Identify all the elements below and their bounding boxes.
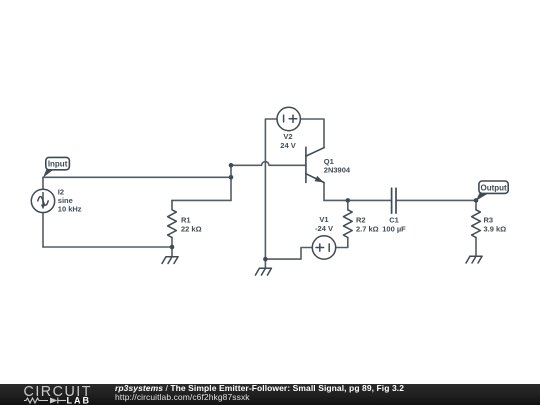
wire base net with hop over V- rail: [231, 162, 306, 166]
wire R2 top lead: [347, 200, 349, 209]
footer bar: [0, 384, 540, 405]
label I2 sine 10 kHz: [58, 187, 82, 213]
svg-text:V1: V1: [319, 215, 328, 224]
svg-text:100 µF: 100 µF: [382, 224, 406, 233]
wire V2 right lead to collector: [300, 119, 324, 148]
svg-text:-24 V: -24 V: [315, 224, 333, 233]
junction dot output node: [474, 198, 479, 203]
wire R1 bottom lead: [171, 238, 173, 248]
wire V2 left lead: [265, 119, 277, 259]
label R2 2.7 kOhm: [356, 215, 379, 233]
ground GND3 under R3: [466, 256, 482, 263]
svg-text:R2: R2: [356, 215, 366, 224]
svg-text:LAB: LAB: [67, 395, 92, 405]
svg-text:2N3904: 2N3904: [324, 166, 351, 175]
source V1 battery: [312, 236, 335, 259]
wire vertical junction riser x=231: [230, 165, 232, 200]
label C1 100 uF: [382, 215, 406, 233]
svg-text:C1: C1: [389, 215, 399, 224]
resistor R2: [343, 210, 352, 238]
svg-text:10 kHz: 10 kHz: [58, 205, 82, 214]
junction dot input tee: [229, 175, 234, 180]
wire R1 ground stem: [171, 247, 173, 257]
node Input flag: [43, 157, 69, 177]
svg-text:Input: Input: [48, 160, 68, 169]
wire R3 top lead: [475, 200, 477, 209]
wire I2 bottom lead: [42, 213, 44, 247]
wire bottom I2 to R1: [43, 246, 172, 248]
wire emitter node to C1: [324, 199, 391, 201]
label V2 24 V: [280, 132, 295, 150]
ground GND1 under R1: [162, 257, 178, 264]
wire V1 left lead to ground rail: [265, 248, 312, 260]
capacitor C1: [392, 188, 396, 213]
svg-text:24 V: 24 V: [280, 141, 295, 150]
junction dot R1 bottom: [170, 245, 175, 250]
junction dot ground rail: [263, 257, 268, 262]
svg-text:Output: Output: [480, 184, 507, 193]
wire R2 bottom lead to V1: [336, 238, 348, 248]
label V1 -24 V: [315, 215, 333, 233]
svg-text:I2: I2: [58, 187, 64, 196]
wire I2 top lead: [42, 177, 44, 189]
svg-text:3.9 kΩ: 3.9 kΩ: [484, 224, 507, 233]
svg-text:sine: sine: [58, 196, 73, 205]
wire R1 top to junction riser: [172, 199, 231, 201]
wire emitter to node: [323, 183, 325, 201]
CircuitLab logo: [0, 384, 110, 405]
svg-text:2.7 kΩ: 2.7 kΩ: [356, 224, 379, 233]
svg-text:R1: R1: [181, 215, 191, 224]
resistor R1: [168, 200, 177, 237]
source V2 battery: [277, 107, 300, 130]
junction dot R2 top: [346, 198, 351, 203]
svg-text:R3: R3: [484, 215, 494, 224]
wire middle ground stem: [264, 259, 266, 268]
label R3 3.9 kOhm: [484, 215, 507, 233]
label R1 22 kOhm: [181, 215, 202, 233]
svg-text:22 kΩ: 22 kΩ: [181, 224, 202, 233]
junction dot base riser top: [229, 163, 234, 168]
footer text: [115, 384, 404, 402]
wire input node to junction: [43, 176, 231, 178]
label Q1 2N3904: [324, 157, 351, 174]
transistor Q1 NPN: [306, 147, 324, 182]
source I2 sine current source: [31, 189, 54, 212]
svg-text:V2: V2: [283, 132, 292, 141]
node Output flag: [476, 181, 508, 201]
resistor R3: [472, 210, 481, 238]
wire C1 to output node: [397, 199, 476, 201]
ground GND2 middle rail: [255, 268, 271, 275]
wire R3 bottom lead: [475, 238, 477, 257]
